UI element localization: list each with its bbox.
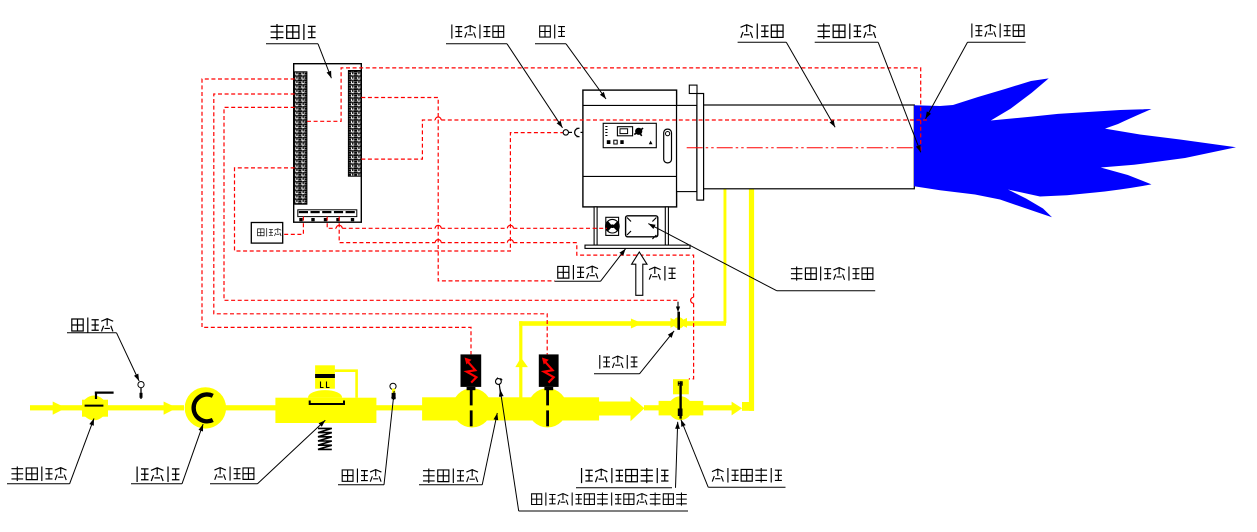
gas flow valve stem	[679, 381, 681, 419]
pipe flow arrow after flow valve	[732, 402, 743, 416]
underline: filter	[131, 483, 182, 485]
underline: damper servo motor	[777, 290, 875, 292]
gas flow control valve body	[659, 401, 704, 416]
manual ball valve body	[82, 400, 89, 417]
wire: controller top run to ignition device	[307, 68, 921, 152]
pipe flow arrow 2	[164, 402, 177, 415]
wire: controller to damper servo motor (seg 1)	[327, 217, 336, 229]
label: guo lv qi (filter)	[137, 467, 179, 483]
controller right terminal strip	[348, 71, 361, 177]
underline: pressure gauge 2	[338, 484, 384, 486]
wire: controller to ion probe (segment 2)	[441, 119, 929, 121]
label: dian huo fa (ignition valve)	[600, 355, 638, 369]
wire: controller to damper servo motor (seg 4)	[513, 227, 607, 229]
leader: housing	[566, 44, 606, 99]
underline: gas flow valve	[708, 486, 785, 488]
main gas riser (thick vertical to burner)	[749, 189, 754, 411]
gas servo motor box (yellow)	[673, 379, 689, 394]
label: tiao ya fa (pressure regulator)	[214, 467, 253, 481]
air pressure switch symbol	[563, 130, 568, 135]
pipe flow arrow after double solenoid	[599, 402, 631, 416]
display unit box (xian shi qi)	[251, 223, 282, 244]
damper motor front block	[606, 217, 619, 235]
wire: controller to air pressure switch	[235, 133, 563, 251]
wire: controller to blower fan connection	[361, 98, 554, 281]
panel fan icon	[635, 128, 642, 135]
leader: pressure gauge 2	[384, 391, 394, 485]
label: ran qi liu liang fa (gas flow valve)	[712, 468, 782, 483]
small box on tube stub top	[689, 85, 697, 93]
underline: to blower fan	[555, 280, 601, 282]
label: kong qi (air)	[649, 266, 676, 281]
air flow arrow (hollow)	[632, 252, 647, 295]
leak detection switch	[496, 379, 502, 385]
air damper servo motor body	[626, 216, 658, 237]
label: ran shao tou (burner head)	[741, 24, 784, 39]
display unit label glyphs	[258, 228, 282, 237]
flange bolts	[704, 110, 709, 176]
ignition gas branch (vertical from pipe)	[519, 321, 522, 398]
regulator sense line	[335, 371, 357, 398]
blower pedestal right leg	[665, 207, 668, 245]
wire: controller to gas servo motor (seg 3)	[513, 243, 693, 298]
solenoid valve 2 stem	[546, 387, 549, 426]
housing sight glass	[664, 129, 672, 163]
underline: ignition valve	[594, 373, 640, 375]
underline: ignition device	[815, 41, 879, 43]
underline: housing	[535, 43, 566, 45]
leader: ignition device	[878, 42, 921, 152]
leader: ignition valve	[640, 331, 675, 374]
label: li zi tan zhen (ion probe)	[972, 24, 1024, 38]
blower pedestal left leg	[594, 207, 597, 245]
ignition valve stem	[677, 312, 680, 330]
controller left terminal strip	[295, 72, 307, 204]
label: ran qi si fu dian ji (gas servo motor)	[582, 468, 669, 483]
label: ji ke (housing)	[540, 25, 565, 39]
leader: gas servo motor	[676, 422, 678, 488]
solenoid valve 2 coil	[539, 354, 559, 387]
solenoid valve 1 coil	[461, 354, 482, 387]
panel buttons	[607, 140, 611, 144]
wire: controller to damper servo motor (seg 2)	[342, 227, 435, 229]
underline: manual ball valve	[7, 483, 70, 485]
flange plate	[697, 94, 704, 201]
controller bottom terminal row	[298, 210, 357, 221]
leader: manual ball valve	[70, 418, 94, 483]
label: shuang dian ci fa (double solenoid valve)	[423, 469, 478, 484]
regulator pilot box	[315, 365, 335, 388]
underline: gas servo motor	[576, 487, 672, 489]
double solenoid valve block	[422, 397, 599, 420]
wire: controller to display unit	[283, 217, 304, 235]
ignition valve body	[671, 318, 688, 328]
ignition line flow arrow	[631, 319, 642, 329]
underline: pressure regulator	[210, 483, 258, 485]
underline: air pressure switch	[446, 43, 507, 45]
burner tube centerline	[687, 147, 913, 149]
leader: double solenoid valve	[482, 413, 497, 485]
underline: burner head	[738, 41, 787, 43]
underline: leak detect switch	[519, 510, 688, 512]
leader: filter	[182, 424, 203, 484]
leader: to blower fan	[601, 249, 626, 282]
arrow from wire to ignition valve	[677, 302, 679, 309]
leader: burner head	[786, 42, 835, 127]
underline: pressure gauge 1	[67, 332, 117, 334]
leader: damper servo motor	[648, 224, 777, 291]
leader: programmer	[318, 44, 331, 78]
programmable controller box	[294, 64, 362, 223]
label: feng men si fu dian ji (damper servo motor)	[791, 267, 873, 281]
leader: pressure regulator	[258, 420, 326, 484]
pedestal base plate	[585, 245, 690, 248]
regulator spring	[318, 428, 332, 449]
pressure gauge 1	[138, 382, 144, 388]
wire: controller to ion probe (segment 1)	[361, 120, 435, 159]
underline: ion probe	[968, 41, 1026, 43]
label: cheng kong qi (programmer)	[271, 24, 316, 40]
regulator bracket	[310, 401, 344, 405]
flame	[914, 78, 1236, 217]
gas pipe main line	[30, 405, 82, 410]
leader: ion probe	[926, 42, 968, 118]
burner tube stub between housing and flange	[677, 105, 697, 191]
leader: pressure gauge 1	[117, 333, 140, 381]
filter crescent	[194, 395, 213, 422]
pipe flow arrow 1	[53, 402, 66, 415]
pressure regulator body	[275, 398, 376, 423]
burner housing (ji ke)	[583, 90, 677, 207]
leader: leak detect switch	[500, 390, 519, 512]
wire: controller to ignition valve	[224, 107, 678, 300]
burner head tube (ran shao tou)	[704, 105, 915, 189]
leader: air pressure switch	[507, 44, 563, 128]
wire: controller to gas servo motor (seg 4)	[689, 303, 694, 379]
leader: gas flow valve	[681, 420, 708, 488]
pressure gauge 2	[390, 383, 396, 389]
label: feng ya kai guan (air pressure switch)	[452, 25, 504, 39]
underline: programmer	[266, 43, 318, 45]
manual ball valve plate and handle	[85, 405, 104, 407]
wire: controller to solenoid coil 2	[214, 94, 547, 354]
wire: controller to gas servo motor (seg 2)	[441, 242, 507, 244]
wire: controller to gas servo motor (seg 1)	[339, 217, 435, 243]
housing control panel	[603, 123, 656, 147]
label: jie feng ji (to blower fan)	[558, 265, 598, 280]
ignition gas line horizontal	[519, 321, 726, 326]
wire: controller to damper servo motor (seg 3)	[441, 227, 507, 229]
damper motor rotor circle	[606, 219, 620, 233]
underline: double solenoid valve	[419, 484, 482, 486]
ignition branch up arrow	[515, 358, 528, 368]
label: jian lou (ran qi ya li di) kai guan (leak detect low-gas-pressure switch)	[532, 493, 687, 506]
ignition gas riser (thin vertical to burner)	[724, 189, 727, 323]
wire: controller to solenoid coil 1	[202, 79, 471, 354]
regulator pilot box stripe	[315, 374, 335, 378]
filter body	[185, 387, 226, 428]
label: dian huo zhuang zhi (ignition device)	[818, 24, 876, 40]
solenoid valve 1 stem	[470, 387, 473, 426]
label: shou dong qiu fa (manual ball valve)	[11, 467, 66, 482]
label: ya li biao 2 (pressure gauge)	[342, 469, 381, 483]
label: ya li biao 1 (pressure gauge)	[72, 318, 113, 333]
